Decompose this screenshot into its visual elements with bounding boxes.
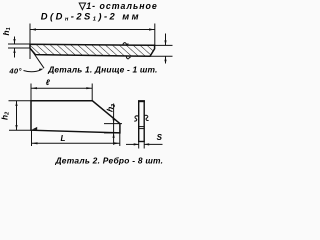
svg-text:Деталь 2. Ребро - 8 шт.: Деталь 2. Ребро - 8 шт. xyxy=(55,155,164,165)
break squiggle right xyxy=(144,115,148,120)
arrow l left xyxy=(31,87,37,89)
svg-text:S: S xyxy=(157,133,163,142)
arrow S right seg xyxy=(144,143,149,145)
arrow h1 top xyxy=(13,39,15,44)
svg-text:40°: 40° xyxy=(8,66,22,75)
h1 extension ticks xyxy=(8,37,30,58)
roughness mark nabla triangle xyxy=(79,3,85,10)
S dimension xyxy=(126,142,163,149)
squiggle bottom edge xyxy=(126,56,130,59)
40 deg leader arrowhead xyxy=(39,69,44,72)
svg-text:L: L xyxy=(61,134,66,143)
svg-text:Деталь 1. Днище - 1 шт.: Деталь 1. Днище - 1 шт. xyxy=(47,64,157,74)
dimension line D xyxy=(30,24,155,60)
detail 1 bar cross-section with hatch xyxy=(30,44,155,56)
arrow h2 top xyxy=(15,101,17,106)
double break lines xyxy=(139,126,145,128)
L dimension xyxy=(32,130,120,146)
extension line left xyxy=(29,24,31,60)
arrow h3 upper xyxy=(113,119,115,124)
h2 dimension line xyxy=(16,101,18,130)
arrow L left xyxy=(32,142,38,144)
arrow l right xyxy=(86,87,92,89)
chamfer extension line 40 deg xyxy=(30,48,44,68)
h3 dimension xyxy=(104,104,122,145)
h2 extension ticks xyxy=(9,101,32,130)
arrow h3 lower xyxy=(113,133,115,138)
svg-text:D(Dн-2S1)-2 мм: D(Dн-2S1)-2 мм xyxy=(41,10,141,22)
arrow S left seg xyxy=(134,143,139,145)
extension line right xyxy=(154,24,156,46)
l dimension xyxy=(31,84,92,101)
arrow D left xyxy=(30,28,36,30)
arrow S1 bottom xyxy=(164,56,166,61)
squiggle top edge xyxy=(123,43,129,45)
right thickness dimension S1 xyxy=(150,34,173,64)
bold top cap xyxy=(138,100,145,102)
break squiggle left xyxy=(134,116,139,121)
trapezoid rib outline xyxy=(31,101,120,133)
arrow h1 bottom xyxy=(13,48,15,53)
arrow L right xyxy=(114,142,120,144)
corner leader arrowhead on bottom edge xyxy=(32,127,37,130)
arrow S1 top xyxy=(164,40,166,45)
h1 dimension line xyxy=(14,37,16,45)
side view rectangle of rib xyxy=(139,101,145,142)
40 deg leader arc xyxy=(24,70,42,72)
arrow h2 bottom xyxy=(15,125,17,130)
arrow D right xyxy=(149,28,155,30)
